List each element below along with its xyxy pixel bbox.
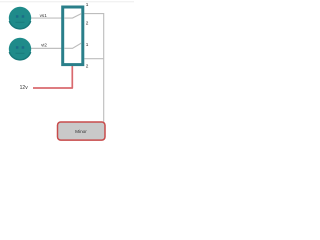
svg-text:1: 1	[86, 42, 89, 47]
switch S1 body	[63, 7, 83, 65]
svg-text:2: 2	[86, 21, 89, 26]
source vi2	[9, 38, 31, 60]
svg-text:vs1: vs1	[40, 13, 48, 18]
source vs1	[9, 7, 31, 29]
svg-text:12v: 12v	[20, 85, 29, 91]
wire pin1 top to node	[84, 14, 103, 122]
svg-text:vi2: vi2	[41, 43, 47, 48]
wire 12v red	[33, 66, 72, 88]
svg-text:1: 1	[86, 2, 89, 7]
wire vi2 to switch	[30, 47, 62, 49]
svg-text:Minor: Minor	[75, 129, 87, 134]
svg-text:2: 2	[86, 64, 89, 69]
block Minor	[58, 122, 106, 140]
top divider line	[0, 1, 134, 3]
wire pin2 bottom to node	[84, 58, 103, 60]
switch S1 pole 1 contact	[64, 14, 81, 18]
switch S1 pole 2 contact	[64, 43, 81, 48]
wire vs1 to switch	[30, 17, 62, 19]
